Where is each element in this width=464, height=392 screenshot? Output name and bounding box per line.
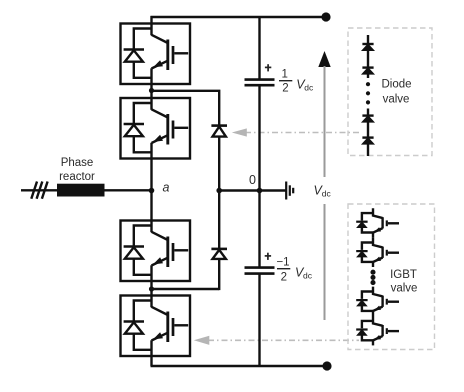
dashed box: Diode valve [348, 28, 432, 156]
wire: top DC rail [151, 16, 327, 18]
antiparallel diode of S1 [124, 29, 152, 78]
svg-text:2: 2 [282, 83, 288, 95]
series IGBT cell 3 of IGBT valve [356, 287, 399, 316]
svg-text:valve: valve [391, 282, 418, 294]
svg-text:IGBT: IGBT [390, 269, 417, 281]
svg-text:Phase: Phase [61, 157, 94, 169]
IGBT valve chain (series IGBT cells) [356, 208, 399, 345]
dots of IGBT valve [372, 271, 375, 284]
node: clamp branch junction dot at neutral [216, 188, 222, 194]
wire: S1/S2 junction to clamp diode D1 [152, 91, 220, 103]
arrow: gray dash-dot callout to IGBT module S4 [194, 336, 359, 345]
wire: neutral to ground [260, 189, 286, 191]
label: Vdc (measurement) [314, 184, 332, 199]
wire: clamp branch to S3/S4 junction [152, 288, 220, 290]
symbol: three-phase slashes [31, 182, 47, 199]
series diode D1 of diode valve [362, 43, 373, 45]
module box S4 [121, 296, 191, 357]
svg-text:Diode: Diode [381, 78, 411, 90]
label: node 0 [249, 173, 256, 187]
arrow: Vdc measurement arrow (black head, gray shaft) [318, 51, 330, 320]
wire: DC-link capacitor branch upper [258, 17, 260, 79]
antiparallel diode of S3 [124, 226, 152, 275]
label: Phase reactor [59, 157, 95, 183]
series IGBT cell 4 of IGBT valve [356, 316, 399, 345]
label: -1/2 Vdc (lower) [276, 257, 312, 284]
svg-text:−1: −1 [276, 257, 289, 269]
wire: neutral to C2 [258, 191, 260, 268]
arrow: gray dash-dot callout to clamp diode D1 [232, 128, 359, 136]
transistor S4 (IGBT symbol) [152, 307, 189, 342]
label: Diode valve [381, 78, 411, 105]
dashed box: IGBT valve [348, 204, 435, 350]
svg-text:a: a [163, 181, 170, 195]
wire: bottom DC rail [151, 365, 327, 367]
svg-text:1: 1 [281, 69, 287, 81]
wire: phase input lead [21, 189, 58, 191]
wire: neutral link from clamp branch to capacitor midpoint [219, 189, 259, 191]
diode valve chain (series diodes) [362, 35, 373, 156]
IGBT module S3 [121, 221, 191, 282]
terminal: negative DC terminal dot [322, 361, 331, 370]
svg-text:valve: valve [383, 93, 410, 105]
IGBT module S2 [121, 98, 191, 159]
module box S1 [121, 24, 191, 85]
series diode D3 of diode valve [362, 114, 373, 116]
series diode D4 of diode valve [362, 136, 373, 138]
antiparallel diode of S2 [124, 103, 152, 152]
wire: C1 to neutral [258, 85, 260, 190]
node: junction dot between S1 and S2 [149, 88, 154, 93]
wire: reactor to node a [105, 189, 152, 191]
svg-text:reactor: reactor [59, 171, 95, 183]
ground symbol [286, 182, 293, 200]
label: node a [163, 181, 170, 195]
node a: junction dot at phase output [149, 188, 155, 194]
label: plus sign C2 [265, 253, 271, 260]
capacitor C2 (lower DC-link capacitor) [245, 268, 275, 274]
svg-text:2: 2 [281, 272, 287, 284]
node: junction dot between S3 and S4 [149, 286, 154, 291]
module box S2 [121, 98, 191, 159]
diode D2 (lower clamp diode) [211, 191, 227, 291]
transistor S2 (IGBT symbol) [152, 109, 189, 144]
wire: leg vertical segments at x=151.5 [150, 16, 152, 366]
antiparallel diode of S4 [124, 301, 152, 350]
diode D1 (upper clamp diode) [211, 103, 227, 191]
IGBT module S4 [121, 296, 191, 357]
svg-text:0: 0 [249, 173, 256, 187]
label: IGBT valve [390, 269, 417, 295]
node 0: capacitor midpoint dot [257, 188, 263, 194]
svg-text:dc: dc [322, 189, 332, 199]
series IGBT cell 2 of IGBT valve [356, 238, 399, 267]
series IGBT cell 1 of IGBT valve [356, 208, 399, 237]
dots of diode valve [366, 82, 370, 86]
transistor S3 (IGBT symbol) [152, 232, 189, 267]
series diode D2 of diode valve [362, 66, 373, 68]
label: plus sign C1 [265, 64, 271, 71]
module box S3 [121, 221, 191, 282]
IGBT module S1 [121, 24, 191, 85]
transistor S1 (IGBT symbol) [152, 35, 189, 70]
terminal: positive DC terminal dot [321, 12, 330, 21]
svg-text:dc: dc [303, 270, 313, 280]
capacitor C1 (upper DC-link capacitor) [245, 80, 275, 86]
component: phase reactor (filled rectangle) [57, 184, 105, 197]
svg-text:dc: dc [304, 82, 314, 92]
label: 1/2 Vdc (upper) [279, 69, 314, 95]
wire: C2 to bottom rail [258, 274, 260, 366]
